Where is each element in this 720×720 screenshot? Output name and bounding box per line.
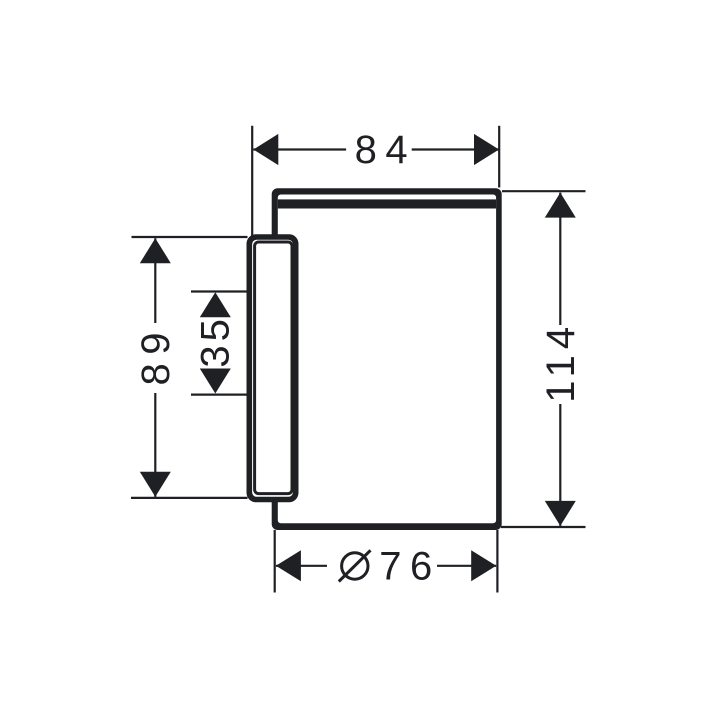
svg-text:76: 76 [379,545,441,589]
svg-text:35: 35 [194,315,238,368]
svg-text:114: 114 [539,321,583,403]
svg-text:84: 84 [355,128,417,172]
svg-text:89: 89 [134,324,178,386]
